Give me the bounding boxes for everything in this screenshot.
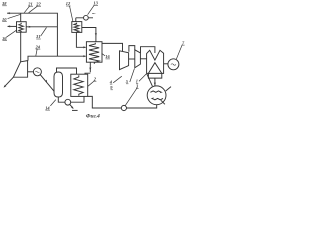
svg-text:38: 38: [1, 1, 7, 6]
svg-text:36: 36: [1, 36, 7, 41]
svg-text:31: 31: [35, 34, 40, 39]
svg-text:24: 24: [35, 44, 41, 49]
svg-text:Фиг.4: Фиг.4: [86, 114, 100, 120]
svg-text:21: 21: [27, 1, 32, 6]
svg-text:22: 22: [35, 1, 41, 6]
